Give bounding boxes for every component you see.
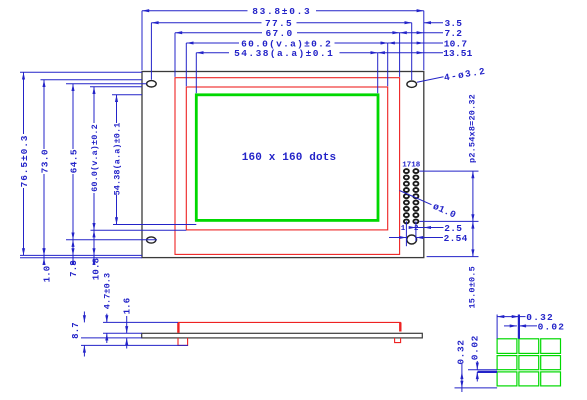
mounting hole bottom-right (407, 235, 417, 244)
ext line va left (185, 43, 187, 86)
dimension 0.32 horizontal (497, 316, 519, 318)
svg-text:p2.54x8=20.32: p2.54x8=20.32 (468, 94, 478, 163)
ext line va top (left) (90, 86, 142, 88)
svg-text:1: 1 (401, 225, 406, 233)
ext line bezel left (174, 33, 176, 77)
dimension p2.54x8=20.32 (472, 171, 474, 221)
dimension 67.0 (175, 32, 262, 34)
svg-text:1.0: 1.0 (42, 266, 52, 283)
dimension 0.02 vertical (476, 361, 478, 370)
dimension 7.3 (72, 240, 74, 263)
ext line module top (left) (20, 71, 142, 73)
svg-text:0.02: 0.02 (469, 335, 480, 360)
side view PCB (142, 333, 423, 338)
dimension 0.02 horizontal (504, 325, 517, 327)
svg-text:160 x 160 dots: 160 x 160 dots (242, 152, 337, 164)
side view bezel left edge (177, 322, 179, 332)
svg-text:4.7±0.3: 4.7±0.3 (103, 273, 113, 309)
ext line bezel top (left) (41, 79, 143, 81)
ext line module bottom (right) (427, 256, 479, 258)
ext line aa left (195, 53, 197, 93)
viewing area outline (red) (186, 87, 387, 230)
dimension 10.7 (388, 42, 443, 44)
svg-text:60.0(v.a)±0.2: 60.0(v.a)±0.2 (90, 124, 100, 192)
leader 4-ø3.2 (417, 77, 444, 83)
side view right claw (395, 338, 401, 343)
dimension 60.0(v.a)±0.2 vertical (93, 87, 95, 123)
ext line right module edge (423, 11, 425, 71)
dimension 54.38(a.a)±0.1 (196, 52, 229, 54)
svg-text:2: 2 (414, 225, 419, 233)
svg-text:0.02: 0.02 (538, 321, 566, 332)
dimension 8.7 (83, 312, 85, 323)
dimension 2.54 (389, 237, 406, 239)
module outline (PCB front view) (142, 72, 424, 258)
mounting hole top-right (407, 81, 417, 87)
ext line pixel col left (496, 315, 498, 339)
dimension 3.5 (424, 22, 443, 24)
ext line side claw bottom (81, 344, 188, 346)
dropline pin col1 (405, 221, 407, 246)
dimension 60.0(v.a)±0.2 (186, 42, 239, 44)
ext line pin row 1/2 (420, 220, 479, 222)
active area outline (green) (196, 95, 378, 221)
pin header pads 18x (p2.54) (404, 169, 409, 173)
ext line va right (387, 43, 389, 86)
dimension 4.7±0.3 (106, 314, 108, 323)
dimension 1.6 (126, 316, 128, 333)
dimension 15.0±0.5 (472, 221, 474, 256)
ext line bezel right (399, 33, 401, 77)
ext line hole TL center (66, 83, 147, 85)
ext line pin row 17/18 (420, 170, 479, 172)
ext line hole top-right (411, 23, 413, 80)
ext line pixel bottom (455, 387, 498, 389)
mounting hole bottom-left (147, 237, 156, 243)
dimension 10.8 (93, 230, 95, 262)
svg-text:76.5±0.3: 76.5±0.3 (19, 135, 30, 188)
dimension 2.5 (409, 227, 444, 229)
ext line pixel col pitch (518, 315, 520, 339)
ext line 76.5 bottom (left) (20, 254, 142, 256)
dimension 83.8±0.3 (142, 10, 248, 12)
svg-text:83.8±0.3: 83.8±0.3 (252, 6, 311, 17)
ext line va bottom (left) (91, 229, 187, 231)
ext line left module edge (141, 11, 143, 71)
dimension 0.32 vertical (461, 364, 463, 392)
leader dimension o1.0 (400, 191, 432, 205)
svg-text:64.5: 64.5 (68, 149, 79, 173)
svg-text:10.8: 10.8 (92, 258, 102, 280)
svg-text:1.6: 1.6 (123, 298, 133, 315)
ext line aa right (377, 53, 379, 93)
dimension 13.51 (378, 52, 443, 54)
side view bezel top line (178, 321, 401, 323)
ext line hole top-left (150, 23, 152, 80)
ext line pixel row pitch (478, 371, 498, 373)
side view left claw (178, 338, 188, 346)
dimension 54.38(a.a)±0.1 vertical (116, 95, 118, 123)
ext line hole BL center (66, 239, 157, 241)
dimension 1.0 (43, 255, 45, 262)
svg-text:54.38(a.a)±0.1: 54.38(a.a)±0.1 (113, 123, 123, 196)
dimension 76.5±0.3 (23, 72, 25, 134)
dimension 77.5 (151, 22, 261, 24)
ext line side bezel top (103, 321, 178, 323)
ext line pixel row3 top gap (468, 369, 497, 371)
side view bezel right edge (399, 322, 401, 331)
mounting hole top-left (147, 81, 157, 87)
svg-text:13.51: 13.51 (443, 48, 472, 59)
ext line side pcb top (103, 332, 142, 334)
svg-text:54.38(a.a)±0.1: 54.38(a.a)±0.1 (234, 48, 334, 59)
dropline pin col2 (415, 221, 417, 241)
svg-text:0.32: 0.32 (455, 339, 466, 364)
dot matrix detail 3x3 pixels (497, 339, 517, 354)
ext line side pcb bottom (81, 337, 142, 339)
bezel outline (red) (175, 78, 400, 255)
ext line aa top (left) (112, 94, 142, 96)
svg-text:8.7: 8.7 (71, 322, 81, 339)
dimension 64.5 (72, 84, 74, 149)
svg-text:2.54: 2.54 (444, 233, 468, 244)
ext line aa bottom (left) (113, 224, 196, 226)
ext line module bottom (left) (20, 257, 142, 259)
dimension 7.2 (400, 32, 443, 34)
dimension 73.0 (43, 80, 45, 149)
svg-text:1718: 1718 (402, 161, 421, 169)
svg-text:7.3: 7.3 (69, 260, 79, 277)
svg-text:15.0±0.5: 15.0±0.5 (468, 266, 478, 308)
svg-text:73.0: 73.0 (39, 149, 50, 173)
